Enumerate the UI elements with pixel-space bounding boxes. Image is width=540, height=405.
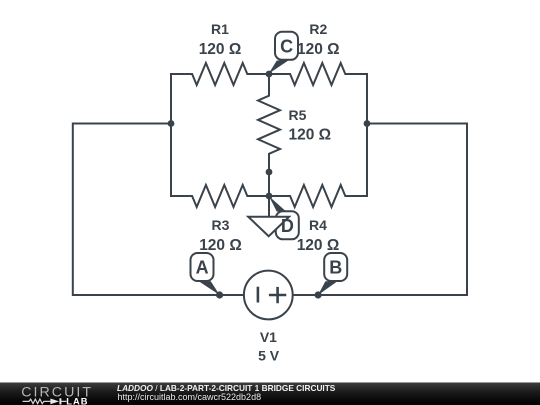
label V1 xyxy=(258,329,280,364)
node C xyxy=(266,71,273,78)
node D xyxy=(266,193,273,200)
voltage source V1 xyxy=(244,271,293,320)
node label A box xyxy=(191,253,214,281)
resistor R2 xyxy=(269,63,367,85)
footer text xyxy=(116,382,118,384)
svg-text:R4: R4 xyxy=(309,217,327,233)
svg-text:B: B xyxy=(329,258,342,278)
svg-text:120 Ω: 120 Ω xyxy=(199,41,242,58)
svg-text:LAB: LAB xyxy=(66,396,88,405)
svg-text:120 Ω: 120 Ω xyxy=(297,41,340,58)
node label C pointer xyxy=(269,61,289,74)
node left junction xyxy=(168,120,175,127)
svg-text:C: C xyxy=(280,36,293,56)
wire right outer loop xyxy=(292,124,467,296)
resistor R3 xyxy=(171,185,269,207)
node label B pointer xyxy=(318,281,337,295)
node label D pointer xyxy=(269,196,286,212)
resistor R1 xyxy=(171,63,269,85)
label R4 xyxy=(297,217,340,254)
node label A pointer xyxy=(199,281,220,295)
resistor R5 xyxy=(258,74,280,172)
svg-text:R1: R1 xyxy=(211,21,229,37)
node A xyxy=(216,291,223,298)
ground lead xyxy=(268,198,270,217)
node label D box xyxy=(276,211,299,239)
label R3 xyxy=(199,217,242,254)
wire R5 bottom to node D xyxy=(268,172,270,196)
wire left outer loop xyxy=(73,124,244,296)
node label B box xyxy=(324,253,347,281)
CircuitLab logo xyxy=(0,383,110,405)
svg-text:120 Ω: 120 Ω xyxy=(297,237,340,254)
node label C box xyxy=(275,32,298,60)
label R1 xyxy=(199,21,242,58)
resistor R4 xyxy=(269,185,367,207)
wire left bridge vertical xyxy=(170,74,172,196)
node right junction xyxy=(364,120,371,127)
svg-text:R5: R5 xyxy=(289,107,307,123)
svg-text:120 Ω: 120 Ω xyxy=(199,237,242,254)
node R5 bottom junction xyxy=(266,169,273,176)
label R5 xyxy=(289,107,332,144)
wire right bridge vertical xyxy=(366,74,368,196)
svg-text:A: A xyxy=(196,258,209,278)
svg-text:R3: R3 xyxy=(212,217,230,233)
svg-text:5 V: 5 V xyxy=(258,347,280,363)
node B xyxy=(315,291,322,298)
svg-text:V1: V1 xyxy=(260,329,277,345)
ground xyxy=(248,217,289,237)
svg-text:D: D xyxy=(281,216,294,236)
svg-text:R2: R2 xyxy=(309,21,327,37)
svg-text:120 Ω: 120 Ω xyxy=(289,126,332,143)
footer bar xyxy=(0,382,540,405)
label R2 xyxy=(297,21,340,58)
